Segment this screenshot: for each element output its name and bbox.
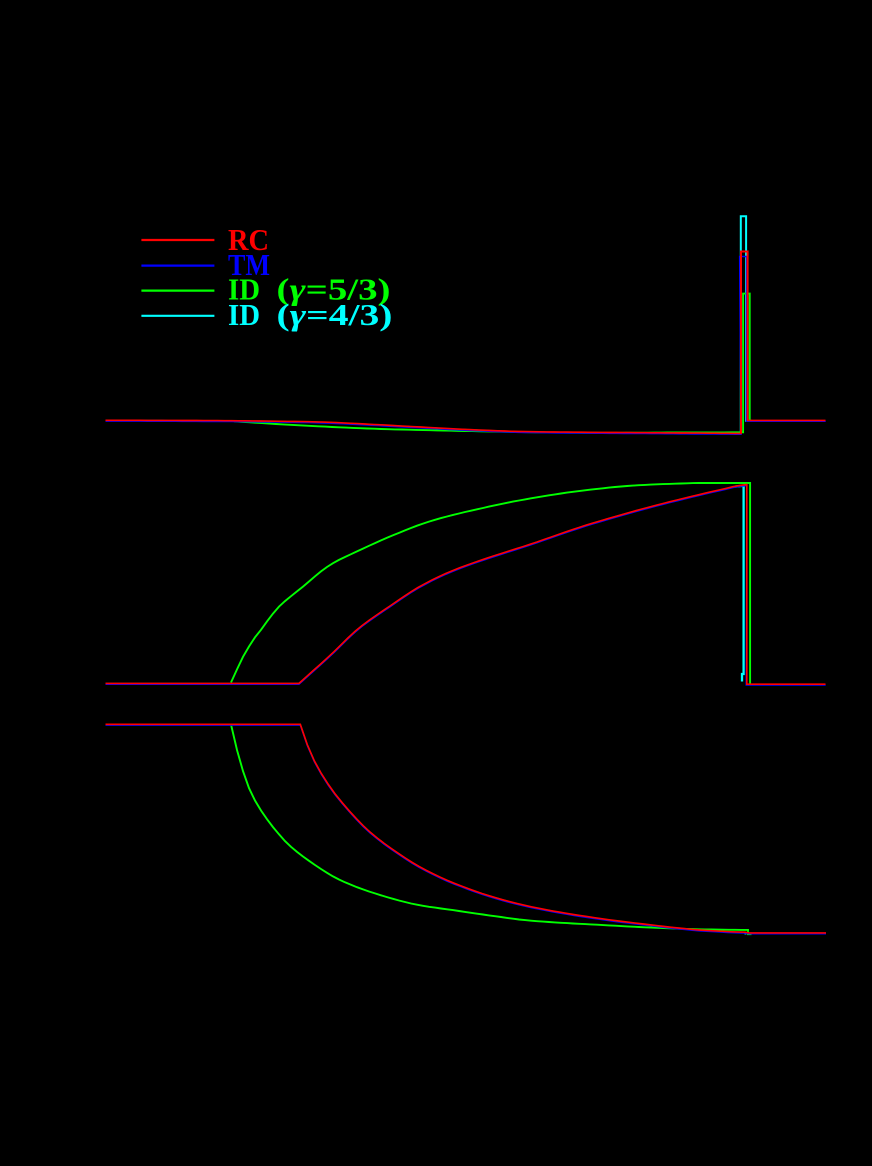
curve ID gamma=4/3 (cyan) spike, top panel [741, 216, 748, 433]
curve ID gamma=4/3 (cyan) base, bottom panel [106, 724, 746, 932]
legend line TM [141, 265, 214, 267]
curve ID gamma=5/3 (green), top panel [234, 294, 752, 433]
curve TM (blue), bottom panel [106, 725, 827, 934]
curve ID gamma=4/3 (cyan) base, middle panel [106, 490, 721, 684]
curve RC (red), middle panel [106, 485, 826, 685]
curve RC (red), top panel spike emphasis [741, 252, 748, 434]
curve TM (blue), middle panel [106, 486, 826, 686]
curve ID gamma=4/3 (cyan) step, bottom panel [745, 932, 747, 934]
curve ID gamma=5/3 (green), middle panel rarefaction and shock drop [231, 483, 750, 684]
curve ID gamma=4/3 (cyan) shock drop, middle panel [735, 486, 744, 682]
curve RC (red), top panel with spike [106, 252, 826, 434]
svg-text:(γ=4/3): (γ=4/3) [277, 297, 393, 332]
curve ID gamma=5/3 (green), bottom panel [231, 725, 752, 935]
legend line ID gamma=4/3 [141, 315, 214, 317]
svg-text:ID: ID [228, 297, 260, 332]
curve RC (red), bottom panel [106, 724, 827, 933]
legend line ID gamma=5/3 [141, 290, 214, 292]
curve TM (blue), top panel [106, 257, 826, 435]
curve ID gamma=4/3 (cyan) base, top panel [106, 420, 742, 433]
legend line RC [141, 239, 214, 241]
